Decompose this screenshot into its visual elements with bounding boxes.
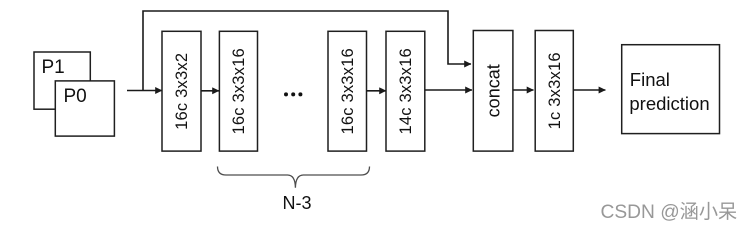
input box P1 xyxy=(34,52,90,109)
conv box 2: 16c 3x3x16 xyxy=(219,31,257,151)
wire: arrow conv3 to conv4 xyxy=(367,90,387,92)
svg-text:16c 3x3x2: 16c 3x3x2 xyxy=(173,53,191,130)
svg-text:1c 3x3x16: 1c 3x3x16 xyxy=(546,52,564,129)
svg-text:P1: P1 xyxy=(42,57,65,78)
wire: arrow conv1 to conv2 xyxy=(202,90,220,92)
conv box 5: 1c 3x3x16 xyxy=(535,31,573,152)
input box P0 xyxy=(55,81,114,136)
concat box xyxy=(473,31,513,152)
svg-text:CSDN @涵小呆: CSDN @涵小呆 xyxy=(601,201,738,223)
svg-text:P0: P0 xyxy=(64,86,87,107)
final prediction box xyxy=(622,45,720,134)
svg-text:concat: concat xyxy=(483,64,503,117)
conv box 4: 14c 3x3x16 xyxy=(386,31,425,151)
wire: skip connection from input line up, across top, down into concat xyxy=(143,11,471,91)
svg-text:prediction: prediction xyxy=(629,93,709,114)
svg-text:16c 3x3x16: 16c 3x3x16 xyxy=(339,48,357,134)
conv box 1: 16c 3x3x2 xyxy=(162,31,201,151)
brace under conv2..conv3 (N-3 group) xyxy=(218,167,370,188)
wire: arrow concat to 1c box xyxy=(513,89,534,91)
svg-text:16c 3x3x16: 16c 3x3x16 xyxy=(230,48,248,134)
wire: arrow conv4 to concat xyxy=(425,89,472,91)
conv box 3: 16c 3x3x16 xyxy=(328,31,367,151)
svg-text:14c 3x3x16: 14c 3x3x16 xyxy=(397,48,415,134)
svg-text:Final: Final xyxy=(630,69,670,90)
ellipsis dots between conv2 and conv3 xyxy=(284,92,302,96)
wire: input arrow into first conv box xyxy=(127,90,162,92)
svg-text:N-3: N-3 xyxy=(282,193,311,213)
wire: arrow 1c box toward final prediction xyxy=(573,89,605,91)
